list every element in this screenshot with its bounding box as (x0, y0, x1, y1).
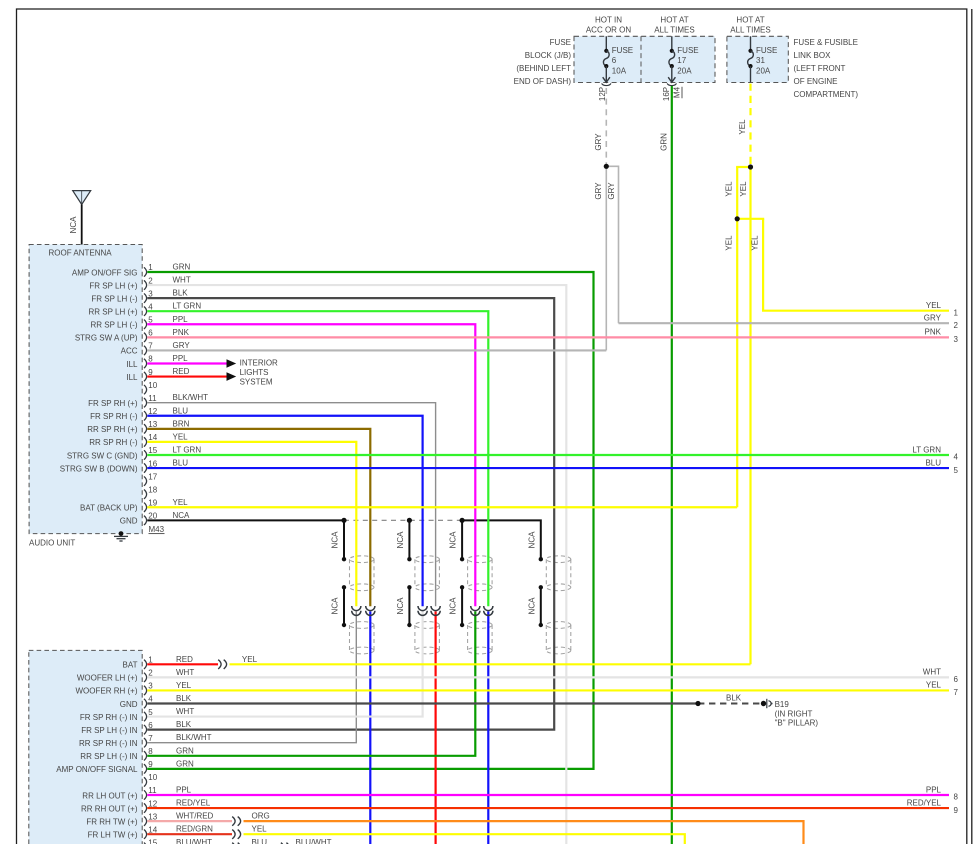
svg-text:FUSE: FUSE (677, 46, 698, 55)
svg-text:RED/YEL: RED/YEL (907, 798, 942, 807)
svg-text:RR RH OUT (+): RR RH OUT (+) (81, 804, 138, 813)
svg-text:GRY: GRY (607, 182, 616, 200)
amp pin 4 (144, 699, 147, 708)
wire BLU lower (from LT GRN pin4) (487, 612, 489, 845)
audio unit pin 7 (144, 346, 147, 355)
svg-text:RED/YEL: RED/YEL (176, 799, 211, 808)
inline connector amp pin13 (232, 817, 235, 826)
svg-text:WHT: WHT (176, 707, 194, 716)
node shield drain group 4 y559.2 (539, 557, 543, 561)
svg-text:PNK: PNK (173, 328, 190, 337)
audio unit pin 12 (144, 411, 147, 420)
svg-text:ALL TIMES: ALL TIMES (730, 26, 770, 35)
svg-text:WOOFER RH (+): WOOFER RH (+) (76, 687, 138, 696)
svg-text:BLK: BLK (176, 694, 192, 703)
svg-text:LT GRN: LT GRN (173, 302, 202, 311)
svg-text:20A: 20A (756, 67, 771, 76)
wire GRY branch to right edge (606, 166, 618, 323)
shield cylinders group 4 (546, 556, 571, 563)
svg-text:GRY: GRY (173, 341, 191, 350)
node shield drain group 3 y559.2 (460, 557, 464, 561)
node shield drain group 1 y559.2 (342, 557, 346, 561)
svg-text:PPL: PPL (173, 354, 189, 363)
svg-text:12: 12 (148, 407, 157, 416)
wire YEL pin14 audio RR SP RH(-) (147, 442, 356, 606)
svg-text:WHT/RED: WHT/RED (176, 812, 214, 821)
svg-text:FR SP LH (+): FR SP LH (+) (89, 281, 137, 290)
audio unit pin 1 (144, 267, 147, 276)
wire BRN pin13 audio RR SP RH(+) (147, 429, 370, 606)
wire BLU lower (from BRN pin13) (369, 612, 371, 845)
arrow to interior lights (pin8) (227, 359, 237, 368)
svg-text:"B" PILLAR): "B" PILLAR) (775, 718, 819, 727)
svg-text:1: 1 (148, 656, 153, 665)
svg-text:AMP ON/OFF SIG: AMP ON/OFF SIG (72, 268, 138, 277)
svg-text:PPL: PPL (926, 785, 942, 794)
svg-text:WOOFER LH (+): WOOFER LH (+) (77, 674, 138, 683)
svg-text:NCA: NCA (527, 531, 536, 549)
svg-text:9: 9 (148, 368, 153, 377)
svg-text:BAT (BACK UP): BAT (BACK UP) (80, 504, 138, 513)
svg-text:3: 3 (148, 682, 153, 691)
svg-text:ACC: ACC (121, 347, 138, 356)
audio unit box (29, 245, 142, 534)
svg-text:4: 4 (148, 302, 153, 311)
svg-text:YEL: YEL (751, 235, 760, 251)
svg-text:12P: 12P (598, 87, 607, 101)
svg-text:BLOCK (J/B): BLOCK (J/B) (525, 51, 572, 60)
node ground audio unit (119, 531, 124, 536)
wire NCA shield drain lower group 1 (343, 587, 345, 625)
svg-text:7: 7 (954, 688, 959, 697)
amp pin 5 (144, 712, 147, 721)
wire YEL down to audio BAT(BACK UP) (736, 167, 738, 507)
svg-text:1: 1 (148, 263, 153, 272)
wire YEL amp pin3 WOOFER RH to right edge 7 (147, 689, 949, 691)
svg-text:GRN: GRN (176, 746, 194, 755)
wire RED/GRN amp pin14 FR LH TW (147, 833, 232, 835)
svg-text:(IN RIGHT: (IN RIGHT (775, 709, 813, 718)
svg-text:10: 10 (148, 381, 157, 390)
svg-text:17: 17 (677, 56, 686, 65)
svg-text:BLU: BLU (925, 458, 941, 467)
svg-text:ROOF ANTENNA: ROOF ANTENNA (49, 248, 113, 257)
amp pin 7 (144, 738, 147, 747)
svg-text:16P: 16P (662, 87, 671, 101)
svg-text:BLU/WHT: BLU/WHT (176, 838, 212, 844)
svg-text:5: 5 (148, 315, 153, 324)
wire NCA shield drain lower group 3 (461, 587, 463, 625)
wire BLK/WHT pin11 audio FR SP RH(+) (147, 403, 435, 607)
svg-text:YEL: YEL (173, 498, 189, 507)
node NCA shield 2 (407, 518, 412, 523)
svg-text:17: 17 (148, 472, 157, 481)
svg-text:AMP ON/OFF SIGNAL: AMP ON/OFF SIGNAL (56, 765, 138, 774)
node NCA shield 3 (460, 518, 465, 523)
svg-text:BLU: BLU (252, 838, 268, 844)
svg-text:9: 9 (954, 806, 959, 815)
amp pin 2 (144, 673, 147, 682)
shield cylinders group 2 (415, 556, 440, 563)
wire LT GRN pin4 audio RR SP LH(+) (147, 311, 488, 606)
svg-text:PPL: PPL (173, 315, 189, 324)
wire PPL pin5 audio RR SP LH(-) (147, 324, 475, 606)
svg-text:FUSE: FUSE (756, 46, 777, 55)
svg-text:ILL: ILL (126, 373, 138, 382)
wire YEL jog left (736, 166, 750, 168)
svg-text:NCA: NCA (173, 511, 191, 520)
svg-text:8: 8 (148, 355, 153, 364)
svg-text:6: 6 (148, 329, 153, 338)
amp pin 11 (144, 790, 147, 799)
svg-text:GRN: GRN (176, 759, 194, 768)
svg-text:NCA: NCA (527, 597, 536, 615)
wire GRN from fuse 17 to bottom (671, 86, 673, 844)
svg-text:11: 11 (148, 394, 157, 403)
audio unit pin 2 (144, 280, 147, 289)
svg-text:NCA: NCA (331, 597, 340, 615)
audio unit pin 11 (144, 398, 147, 407)
node YEL junction B (735, 216, 740, 221)
svg-text:OF ENGINE: OF ENGINE (794, 77, 838, 86)
wire RED lower (from BLK/WHT pin11) (435, 612, 437, 845)
svg-text:BLU: BLU (173, 406, 189, 415)
wire RED pin9 audio ILL (147, 375, 226, 377)
svg-text:RR SP LH (-): RR SP LH (-) (91, 321, 138, 330)
node YEL junction A (748, 164, 753, 169)
svg-text:14: 14 (148, 825, 157, 834)
svg-text:LT GRN: LT GRN (173, 445, 202, 454)
wire NCA shield drain upper group 3 (461, 520, 463, 559)
wire NCA to shield 4 (462, 520, 541, 559)
wire NCA shield drain lower group 4 (540, 587, 542, 625)
svg-text:YEL: YEL (926, 681, 942, 690)
svg-text:BLK: BLK (176, 720, 192, 729)
svg-text:14: 14 (148, 433, 157, 442)
svg-text:1: 1 (954, 308, 959, 317)
svg-text:BLK: BLK (173, 289, 189, 298)
fuse and fusible link box (727, 36, 788, 82)
svg-text:19: 19 (148, 498, 157, 507)
svg-text:M4: M4 (672, 86, 681, 98)
node shield drain group 2 y587.3 (407, 585, 411, 589)
ground B19 (766, 699, 768, 708)
wire NCA shield drain upper group 2 (408, 520, 410, 559)
wire BLK amp pin4 GND (147, 702, 698, 704)
svg-text:YEL: YEL (242, 655, 258, 664)
svg-text:8: 8 (954, 793, 959, 802)
fuse 6 (605, 36, 607, 51)
svg-text:7: 7 (148, 734, 153, 743)
svg-text:16: 16 (148, 459, 157, 468)
svg-text:RR LH OUT (+): RR LH OUT (+) (82, 791, 138, 800)
svg-text:4: 4 (148, 695, 153, 704)
amp pin 6 (144, 725, 147, 734)
svg-text:15: 15 (148, 838, 157, 844)
audio unit pin 8 (144, 359, 147, 368)
node NCA shield 1 (341, 518, 346, 523)
fuse block cell divider (640, 36, 642, 82)
svg-text:YEL: YEL (725, 235, 734, 251)
svg-text:BLK/WHT: BLK/WHT (173, 393, 209, 402)
svg-text:FR SP RH (-) IN: FR SP RH (-) IN (80, 713, 138, 722)
svg-text:FR SP LH (-): FR SP LH (-) (91, 294, 137, 303)
svg-text:WHT: WHT (173, 276, 191, 285)
wire ORG to tweeter (244, 821, 804, 844)
wire YEL amp BAT feed from fuse 31 (230, 663, 751, 665)
svg-text:5: 5 (148, 708, 153, 717)
wire PPL amp pin11 RR LH OUT to right edge 8 (147, 794, 949, 796)
svg-text:YEL: YEL (738, 119, 747, 135)
shield cylinders group 1 (350, 556, 375, 563)
svg-text:STRG SW C (GND): STRG SW C (GND) (67, 451, 138, 460)
amplifier connector box (29, 650, 142, 849)
svg-text:6: 6 (148, 721, 153, 730)
wire NCA dashed between shields (344, 519, 462, 521)
svg-text:10A: 10A (612, 67, 627, 76)
amp pin 9 (144, 764, 147, 773)
fuse 31 (750, 36, 752, 51)
svg-text:END OF DASH): END OF DASH) (514, 77, 572, 86)
svg-text:STRG SW A (UP): STRG SW A (UP) (75, 334, 138, 343)
wire BLK/WHT lower (from YEL pin14) to amp pin7 (147, 612, 356, 743)
wire BLU pin16 audio STRG SW B to right edge 5 (147, 467, 949, 469)
audio unit pin 16 (144, 463, 147, 472)
inline connector amp pin14 (232, 830, 235, 839)
svg-text:GRY: GRY (594, 133, 603, 151)
svg-text:9: 9 (148, 760, 153, 769)
svg-text:BLU/WHT: BLU/WHT (296, 838, 332, 844)
svg-text:BAT: BAT (123, 661, 138, 670)
svg-text:2: 2 (954, 321, 959, 330)
connector cup below fuse 6 (602, 83, 611, 85)
amp pin 12 (144, 803, 147, 812)
wire PNK pin6 audio STRG SW A to right edge 3 (147, 336, 949, 338)
inline connector amp pin1 (218, 660, 221, 669)
svg-text:YEL: YEL (739, 181, 748, 197)
wire GRN lower (from PPL pin5) to amp pin8 (147, 612, 475, 756)
svg-text:ILL: ILL (126, 360, 138, 369)
svg-text:YEL: YEL (725, 181, 734, 197)
audio unit pin 13 (144, 424, 147, 433)
audio unit pin 4 (144, 307, 147, 316)
svg-text:2: 2 (148, 669, 153, 678)
svg-text:FR SP RH (+): FR SP RH (+) (88, 399, 138, 408)
svg-text:RED/GRN: RED/GRN (176, 825, 213, 834)
svg-text:WHT: WHT (923, 668, 941, 677)
svg-text:GRY: GRY (924, 314, 942, 323)
svg-text:NCA: NCA (69, 216, 78, 234)
amp pin 10 (144, 777, 147, 786)
svg-text:HOT AT: HOT AT (736, 16, 764, 25)
audio unit pin 3 (144, 293, 147, 302)
svg-text:6: 6 (954, 675, 959, 684)
wire RED/YEL amp pin12 RR RH OUT to right edge 9 (147, 807, 949, 809)
svg-text:NCA: NCA (396, 531, 405, 549)
amp pin 8 (144, 751, 147, 760)
wire WHT/RED amp pin13 FR RH TW (147, 820, 232, 822)
ground symbol audio unit (114, 535, 128, 537)
svg-text:18: 18 (148, 485, 157, 494)
audio unit pin 6 (144, 333, 147, 342)
wire NCA pin20 audio GND shield drain (147, 519, 344, 521)
svg-text:13: 13 (148, 812, 157, 821)
wire YEL to tweeter (244, 834, 685, 844)
audio unit pin 20 (144, 516, 147, 525)
wire YEL down to amp BAT (749, 167, 751, 664)
svg-text:BLU: BLU (173, 459, 189, 468)
svg-text:BLK/WHT: BLK/WHT (176, 733, 212, 742)
svg-text:10: 10 (148, 773, 157, 782)
svg-text:FUSE & FUSIBLE: FUSE & FUSIBLE (794, 38, 858, 47)
inline connectors at shield breaks (352, 606, 361, 611)
svg-text:PPL: PPL (176, 786, 192, 795)
svg-text:GND: GND (120, 517, 138, 526)
wire GRY to audio ACC pin 7 (605, 166, 607, 350)
fuse 17 (671, 36, 673, 51)
svg-text:LIGHTS: LIGHTS (240, 368, 269, 377)
svg-text:RED: RED (176, 655, 193, 664)
node shield drain group 2 y625.0 (407, 623, 411, 627)
svg-text:BLK: BLK (726, 694, 742, 703)
amp pin 15 (144, 843, 147, 849)
amp pin 13 (144, 816, 147, 825)
wire WHT amp pin2 WOOFER LH to right edge 6 (147, 676, 949, 678)
svg-text:BRN: BRN (173, 419, 190, 428)
svg-text:(LEFT FRONT: (LEFT FRONT (794, 64, 846, 73)
svg-text:5: 5 (954, 466, 959, 475)
svg-text:FUSE: FUSE (550, 38, 571, 47)
svg-text:B19: B19 (775, 700, 790, 709)
audio unit pin 14 (144, 437, 147, 446)
svg-text:GRN: GRN (659, 133, 668, 151)
wire YEL pin19 audio BAT(BACK UP) (147, 506, 737, 508)
svg-text:M43: M43 (149, 525, 165, 534)
svg-text:HOT IN: HOT IN (595, 16, 622, 25)
svg-text:RED: RED (173, 367, 190, 376)
audio unit pin 15 (144, 450, 147, 459)
node shield drain group 3 y587.3 (460, 585, 464, 589)
svg-text:GRN: GRN (173, 263, 191, 272)
svg-text:ORG: ORG (252, 812, 270, 821)
wire GRN pin1 audio AMP ON/OFF to amp pin9 (147, 272, 593, 769)
svg-text:NCA: NCA (396, 597, 405, 615)
wire RED amp pin1 BAT (147, 663, 218, 665)
svg-text:GND: GND (120, 700, 138, 709)
svg-text:FR SP LH (-) IN: FR SP LH (-) IN (81, 726, 138, 735)
svg-text:FR RH TW (+): FR RH TW (+) (86, 817, 138, 826)
svg-text:31: 31 (756, 56, 765, 65)
svg-text:NCA: NCA (331, 531, 340, 549)
wire NCA shield drain upper group 4 (540, 558, 542, 560)
node shield drain group 1 y625.0 (342, 623, 346, 627)
svg-text:ALL TIMES: ALL TIMES (654, 26, 694, 35)
wire WHT lower (from BLU pin12) to amp pin5 (147, 612, 422, 717)
wire YEL jog right (737, 218, 764, 220)
svg-text:YEL: YEL (252, 825, 268, 834)
svg-text:SYSTEM: SYSTEM (240, 378, 273, 387)
shield cylinders group 3 (468, 556, 493, 563)
svg-text:RR SP LH (+): RR SP LH (+) (89, 308, 138, 317)
wire GRY pin7 audio ACC (147, 349, 606, 351)
svg-text:4: 4 (954, 453, 959, 462)
audio unit pin 5 (144, 320, 147, 329)
svg-text:15: 15 (148, 446, 157, 455)
svg-text:11: 11 (148, 786, 157, 795)
wire BLK dashed to B19 (698, 703, 764, 705)
svg-text:13: 13 (148, 420, 157, 429)
svg-text:WHT: WHT (176, 668, 194, 677)
amp pin 3 (144, 686, 147, 695)
svg-text:NCA: NCA (449, 597, 458, 615)
svg-text:YEL: YEL (176, 681, 192, 690)
node shield drain group 2 y559.2 (407, 557, 411, 561)
wire GRY dashed from fuse 6 (605, 88, 607, 166)
wire WHT pin2 audio FR SP LH(+) (147, 285, 566, 844)
svg-text:RR SP RH (-) IN: RR SP RH (-) IN (79, 739, 138, 748)
svg-text:HOT AT: HOT AT (660, 16, 688, 25)
svg-text:COMPARTMENT): COMPARTMENT) (794, 90, 859, 99)
svg-text:2: 2 (148, 276, 153, 285)
svg-text:FR LH TW (+): FR LH TW (+) (88, 831, 138, 840)
svg-text:GRY: GRY (594, 182, 603, 200)
wire NCA shield drain upper group 1 (343, 520, 345, 559)
node shield drain group 1 y587.3 (342, 585, 346, 589)
audio unit pin 10 (144, 385, 147, 394)
audio unit pin 17 (144, 476, 147, 485)
svg-text:YEL: YEL (173, 432, 189, 441)
svg-text:FR SP RH (-): FR SP RH (-) (90, 412, 138, 421)
svg-text:FUSE: FUSE (612, 46, 633, 55)
audio unit pin 9 (144, 372, 147, 381)
svg-text:7: 7 (148, 342, 153, 351)
node GRY junction (604, 164, 609, 169)
audio unit pin 19 (144, 503, 147, 512)
amp pin 14 (144, 830, 147, 839)
antenna symbol (73, 191, 91, 205)
svg-text:RR SP RH (+): RR SP RH (+) (87, 425, 138, 434)
svg-text:6: 6 (612, 56, 617, 65)
svg-text:LT GRN: LT GRN (912, 445, 941, 454)
node shield drain group 3 y625.0 (460, 623, 464, 627)
svg-text:LINK BOX: LINK BOX (794, 51, 832, 60)
svg-text:RR SP LH (-) IN: RR SP LH (-) IN (80, 752, 137, 761)
wire LT GRN pin15 audio STRG SW C to right edge 4 (147, 454, 949, 456)
svg-text:INTERIOR: INTERIOR (240, 359, 278, 368)
wire PPL pin8 audio ILL (147, 362, 226, 364)
fuse block J/B box (574, 36, 715, 82)
svg-text:YEL: YEL (926, 301, 942, 310)
svg-text:8: 8 (148, 747, 153, 756)
svg-text:3: 3 (148, 289, 153, 298)
svg-text:12: 12 (148, 799, 157, 808)
svg-text:(BEHIND LEFT: (BEHIND LEFT (516, 64, 571, 73)
node shield drain group 4 y587.3 (539, 585, 543, 589)
wire NCA shield drain lower group 2 (408, 587, 410, 625)
svg-text:AUDIO UNIT: AUDIO UNIT (29, 539, 75, 548)
amp pin 1 (144, 660, 147, 669)
svg-text:RR SP RH (-): RR SP RH (-) (89, 438, 138, 447)
svg-text:NCA: NCA (449, 531, 458, 549)
connector cup below fuse 17 (667, 83, 676, 85)
svg-text:ACC OR ON: ACC OR ON (586, 26, 632, 35)
audio unit pin 18 (144, 489, 147, 498)
wire YEL dashed from fuse 31 (749, 84, 751, 167)
svg-text:20A: 20A (677, 67, 692, 76)
svg-text:20: 20 (148, 512, 157, 521)
node GND junction (695, 701, 700, 706)
wire YEL to right edge 1 (763, 219, 949, 311)
